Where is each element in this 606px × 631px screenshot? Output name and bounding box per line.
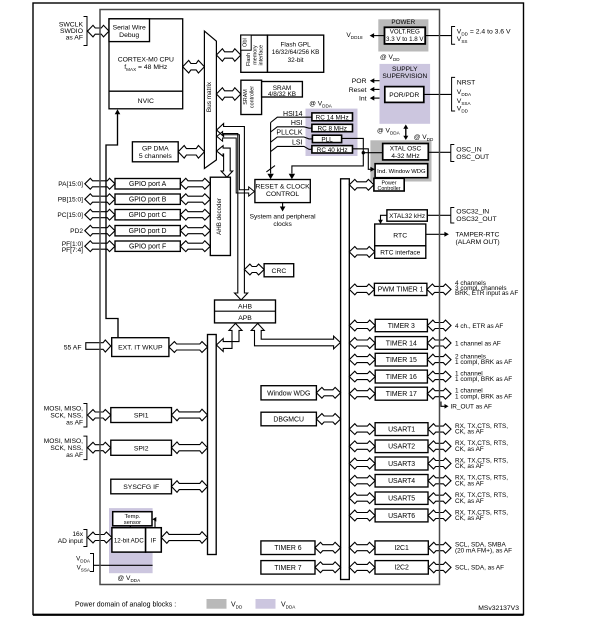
- svg-text:Serial Wire: Serial Wire: [113, 24, 146, 31]
- svg-text:Ind. Window WDG: Ind. Window WDG: [377, 169, 426, 175]
- svg-text:VOLT.REG: VOLT.REG: [390, 29, 420, 36]
- svg-text:GPIO port D: GPIO port D: [129, 228, 167, 235]
- svg-text:16x: 16x: [72, 531, 83, 538]
- svg-text:RESET & CLOCK: RESET & CLOCK: [255, 184, 310, 191]
- svg-text:AD input: AD input: [58, 538, 83, 545]
- svg-text:CONTROL: CONTROL: [266, 191, 299, 198]
- svg-text:PF[7:4]: PF[7:4]: [62, 247, 83, 254]
- svg-text:SUPERVISION: SUPERVISION: [382, 73, 427, 80]
- svg-text:OSC_OUT: OSC_OUT: [456, 154, 489, 161]
- svg-text:RTC interface: RTC interface: [380, 250, 420, 257]
- svg-text:Debug: Debug: [119, 32, 139, 39]
- svg-text:SPI1: SPI1: [134, 413, 149, 420]
- svg-text:CRC: CRC: [272, 268, 287, 275]
- svg-text:1 channel as AF: 1 channel as AF: [455, 340, 501, 347]
- svg-text:PWM TIMER 1: PWM TIMER 1: [378, 287, 424, 294]
- svg-text:GPIO port F: GPIO port F: [129, 244, 166, 251]
- svg-text:interface: interface: [259, 45, 265, 66]
- svg-text:PD2: PD2: [70, 228, 83, 235]
- svg-text:GPIO port B: GPIO port B: [129, 197, 167, 204]
- svg-text:Flash GPL: Flash GPL: [280, 41, 311, 48]
- svg-text:5 channels: 5 channels: [139, 153, 172, 160]
- svg-text:Power domain of analog blocks: Power domain of analog blocks :: [75, 601, 176, 608]
- svg-text:TIMER 14: TIMER 14: [386, 340, 417, 347]
- svg-text:3.3 V to 1.8 V: 3.3 V to 1.8 V: [386, 36, 424, 43]
- svg-text:(20 mA FM+), as AF: (20 mA FM+), as AF: [455, 547, 512, 554]
- svg-text:USART4: USART4: [388, 478, 415, 485]
- svg-text:USART5: USART5: [388, 496, 415, 503]
- svg-text:55 AF: 55 AF: [64, 344, 82, 351]
- svg-text:Flash: Flash: [246, 53, 252, 66]
- svg-text:Int: Int: [359, 96, 367, 103]
- svg-text:BRK, ETR input as AF: BRK, ETR input as AF: [455, 290, 518, 297]
- svg-text:GP DMA: GP DMA: [142, 146, 169, 153]
- svg-text:CK, as AF: CK, as AF: [455, 446, 484, 453]
- svg-text:POR: POR: [352, 78, 367, 85]
- svg-text:POWER: POWER: [391, 19, 415, 26]
- svg-text:Controller: Controller: [378, 186, 401, 192]
- svg-text:SUPPLY: SUPPLY: [392, 66, 418, 73]
- svg-text:AHB decoder: AHB decoder: [216, 198, 223, 235]
- svg-text:MOSI, MISO,: MOSI, MISO,: [44, 438, 83, 445]
- svg-text:4-32 MHz: 4-32 MHz: [391, 153, 419, 160]
- svg-text:TIMER 7: TIMER 7: [274, 565, 301, 572]
- svg-text:32-bit: 32-bit: [288, 57, 304, 64]
- svg-text:SRAM: SRAM: [243, 89, 249, 105]
- svg-text:Temp.: Temp.: [125, 514, 141, 520]
- svg-text:TIMER 17: TIMER 17: [386, 391, 417, 398]
- svg-text:16/32/64/256 KB: 16/32/64/256 KB: [272, 49, 320, 56]
- svg-text:AHB: AHB: [238, 304, 252, 311]
- svg-text:PC[15:0]: PC[15:0]: [57, 212, 83, 219]
- svg-text:DBGMCU: DBGMCU: [273, 417, 304, 424]
- svg-text:IF: IF: [151, 537, 157, 544]
- svg-text:RTC: RTC: [393, 233, 407, 240]
- svg-text:PA[15:0]: PA[15:0]: [58, 181, 83, 188]
- svg-text:POR/PDR: POR/PDR: [389, 92, 419, 99]
- svg-text:SPI2: SPI2: [134, 445, 149, 452]
- svg-text:PLLCLK: PLLCLK: [276, 130, 302, 137]
- svg-text:PLL: PLL: [321, 137, 333, 144]
- svg-text:CK, as AF: CK, as AF: [455, 463, 484, 470]
- svg-text:1 compl, BRK as AF: 1 compl, BRK as AF: [455, 376, 512, 383]
- svg-text:System and peripheral: System and peripheral: [250, 214, 317, 221]
- svg-text:USART2: USART2: [388, 444, 415, 451]
- svg-text:MOSI, MISO,: MOSI, MISO,: [44, 405, 83, 412]
- svg-text:sensor: sensor: [124, 520, 141, 526]
- svg-text:RC 40 kHz: RC 40 kHz: [317, 147, 348, 154]
- svg-text:CK, as AF: CK, as AF: [455, 480, 484, 487]
- svg-text:OSC32_OUT: OSC32_OUT: [456, 216, 496, 223]
- svg-text:IR_OUT as AF: IR_OUT as AF: [451, 404, 493, 411]
- svg-text:NRST: NRST: [457, 80, 476, 87]
- svg-text:CK, as AF: CK, as AF: [455, 515, 484, 522]
- svg-text:USART1: USART1: [388, 426, 415, 433]
- svg-text:TIMER 15: TIMER 15: [386, 357, 417, 364]
- svg-text:Bus matrix: Bus matrix: [206, 81, 213, 112]
- svg-text:(ALARM OUT): (ALARM OUT): [456, 239, 500, 246]
- svg-text:LSI: LSI: [292, 139, 303, 146]
- svg-text:as AF: as AF: [66, 452, 83, 459]
- svg-text:EXT. IT WKUP: EXT. IT WKUP: [118, 345, 163, 352]
- svg-text:Reset: Reset: [349, 87, 367, 94]
- svg-text:TIMER 6: TIMER 6: [274, 545, 301, 552]
- svg-text:TAMPER-RTC: TAMPER-RTC: [456, 232, 500, 239]
- svg-text:PB[15:0]: PB[15:0]: [58, 197, 83, 204]
- svg-text:CORTEX-M0 CPU: CORTEX-M0 CPU: [118, 56, 174, 63]
- svg-text:OSC_IN: OSC_IN: [456, 146, 481, 153]
- svg-text:NVIC: NVIC: [138, 98, 154, 105]
- svg-text:I2C1: I2C1: [394, 545, 409, 552]
- svg-text:SYSCFG IF: SYSCFG IF: [123, 484, 159, 491]
- svg-text:SCL, SDA, as AF: SCL, SDA, as AF: [455, 565, 504, 572]
- svg-text:as AF: as AF: [66, 419, 83, 426]
- svg-text:clocks: clocks: [273, 221, 292, 228]
- svg-text:controller: controller: [250, 86, 256, 108]
- svg-text:TIMER 3: TIMER 3: [388, 323, 415, 330]
- svg-text:4/8/32 KB: 4/8/32 KB: [268, 91, 296, 98]
- svg-text:CK, as AF: CK, as AF: [455, 429, 484, 436]
- svg-text:I2C2: I2C2: [394, 565, 409, 572]
- svg-text:XTAL OSC: XTAL OSC: [390, 146, 422, 153]
- svg-text:4 ch., ETR as AF: 4 ch., ETR as AF: [455, 323, 503, 330]
- svg-text:OSC32_IN: OSC32_IN: [456, 208, 489, 215]
- svg-text:GPIO port A: GPIO port A: [129, 181, 167, 188]
- svg-text:RC 14 MHz: RC 14 MHz: [316, 114, 349, 121]
- svg-text:12-bit ADC: 12-bit ADC: [114, 537, 144, 544]
- svg-text:USART3: USART3: [388, 461, 415, 468]
- svg-text:XTAL32 kHz: XTAL32 kHz: [389, 213, 425, 220]
- svg-text:Window WDG: Window WDG: [267, 390, 310, 397]
- svg-text:GPIO port C: GPIO port C: [129, 212, 167, 219]
- svg-text:1 compl, BRK as AF: 1 compl, BRK as AF: [455, 393, 512, 400]
- svg-text:TIMER 16: TIMER 16: [386, 374, 417, 381]
- svg-text:1 compl, BRK as AF: 1 compl, BRK as AF: [455, 359, 512, 366]
- svg-text:CK, as AF: CK, as AF: [455, 498, 484, 505]
- svg-text:USART6: USART6: [388, 513, 415, 520]
- svg-text:APB: APB: [238, 315, 252, 322]
- svg-text:Obl: Obl: [243, 38, 249, 47]
- svg-text:MSv32137V3: MSv32137V3: [478, 605, 519, 612]
- svg-text:HSI: HSI: [291, 120, 303, 127]
- svg-text:as AF: as AF: [66, 34, 83, 41]
- svg-text:RC 8 MHz: RC 8 MHz: [317, 126, 346, 133]
